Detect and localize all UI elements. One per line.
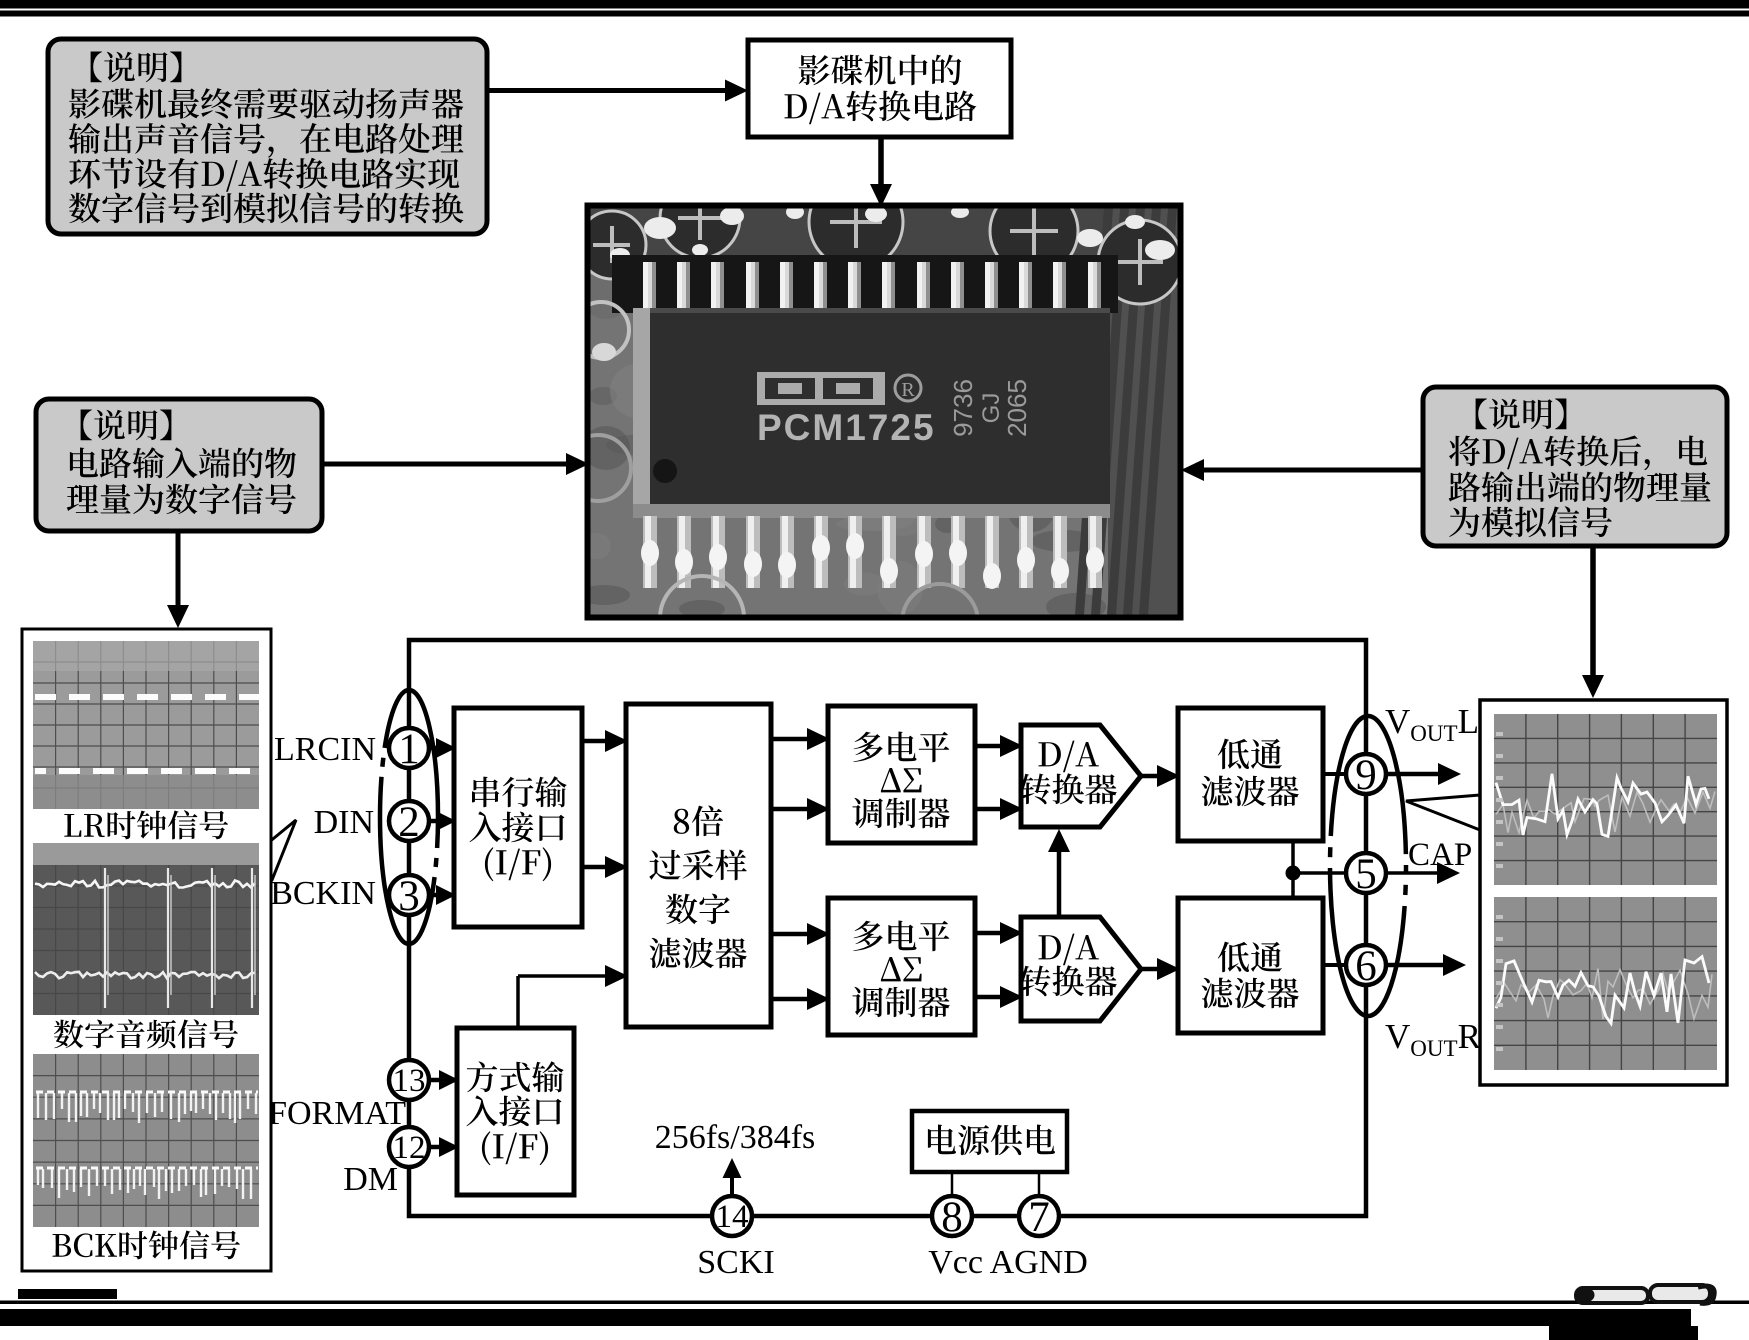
svg-text:256fs/384fs: 256fs/384fs [655,1119,816,1156]
svg-text:9736: 9736 [948,379,978,437]
svg-text:8: 8 [941,1194,963,1241]
svg-text:1: 1 [398,726,420,773]
svg-text:9: 9 [1355,752,1377,799]
svg-text:DIN: DIN [314,804,374,841]
svg-text:13: 13 [393,1063,426,1099]
svg-text:SCKI: SCKI [697,1244,774,1281]
svg-text:BCKIN: BCKIN [270,875,376,912]
svg-text:DM: DM [343,1161,398,1198]
svg-text:GJ: GJ [978,393,1005,424]
svg-text:5: 5 [1355,851,1377,898]
svg-text:R: R [901,379,915,401]
svg-text:3: 3 [398,873,420,920]
svg-text:PCM1725: PCM1725 [757,407,936,448]
svg-text:2065: 2065 [1002,379,1032,437]
svg-text:CAP: CAP [1408,837,1472,873]
svg-text:FORMAT: FORMAT [268,1095,406,1132]
svg-text:Vcc AGND: Vcc AGND [928,1244,1088,1281]
svg-text:2: 2 [398,799,420,846]
svg-text:6: 6 [1355,943,1377,990]
svg-text:LRCIN: LRCIN [274,731,376,768]
svg-text:7: 7 [1028,1194,1050,1241]
svg-text:14: 14 [716,1199,749,1235]
